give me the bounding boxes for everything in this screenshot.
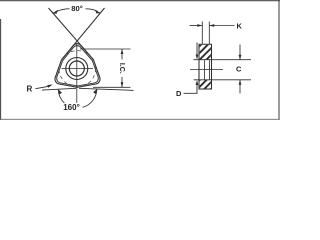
IC dimension line top with arrow [121, 49, 123, 60]
svg-text:R: R [27, 85, 33, 94]
svg-text:80°: 80° [71, 4, 82, 13]
D upper arrow pointing down to hole top line [196, 43, 198, 55]
C dim arrow top [239, 45, 241, 60]
border frame right [278, 0, 280, 119]
hole inner circle [69, 61, 84, 76]
inscribed circle (dashed) [59, 51, 95, 87]
trigon insert outline (inner land line) [57, 46, 99, 86]
leader left of 80deg [57, 9, 70, 12]
C dim arrow bottom [239, 80, 241, 94]
centerline vertical [76, 44, 78, 103]
trigon insert outline (outer) [55, 44, 100, 88]
centerline horizontal [62, 68, 94, 70]
K dim arrow left [190, 25, 203, 27]
K dim arrow right [209, 25, 234, 27]
hole bore wall left [204, 60, 206, 79]
hole centerline side view [190, 69, 223, 71]
IC bottom extension line [93, 86, 131, 88]
R leader [36, 86, 49, 88]
80-deg construction line right (extends into upper-left edge) [62, 8, 105, 60]
hole section top line [193, 59, 211, 61]
svg-text:C: C [236, 65, 242, 74]
svg-text:I.C.: I.C. [118, 63, 125, 74]
160-deg extension line left [42, 88, 76, 90]
svg-text:D: D [176, 89, 182, 98]
K extension line left [201, 22, 203, 45]
80-deg construction line left (extends into upper-right edge) [49, 8, 94, 60]
side view top hatched block [200, 45, 211, 60]
arc arrowhead left [58, 89, 62, 95]
svg-text:K: K [237, 22, 243, 31]
border frame bottom [0, 118, 280, 120]
D leader arrowhead [196, 80, 199, 85]
side view rectangle outline [199, 44, 212, 89]
160-deg arc right part [83, 89, 97, 107]
hole section bottom line [194, 79, 212, 81]
svg-text:160°: 160° [63, 103, 80, 112]
K extension line right [208, 22, 210, 45]
160-deg arc left part [58, 89, 64, 103]
side view bottom hatched block [200, 80, 211, 89]
arc arrowhead right [93, 89, 97, 95]
hole outer circle [66, 58, 88, 80]
160-deg extension line right [79, 88, 134, 90]
IC dimension line bottom with arrow [121, 77, 123, 87]
IC top extension line [80, 48, 131, 50]
D leader [184, 84, 198, 93]
border frame left [0, 19, 2, 120]
leader right of 80deg [86, 9, 98, 12]
border frame top [0, 0, 280, 2]
hole bore wall right [208, 60, 210, 79]
C extension line top [212, 59, 252, 61]
C extension line bottom [212, 79, 252, 81]
